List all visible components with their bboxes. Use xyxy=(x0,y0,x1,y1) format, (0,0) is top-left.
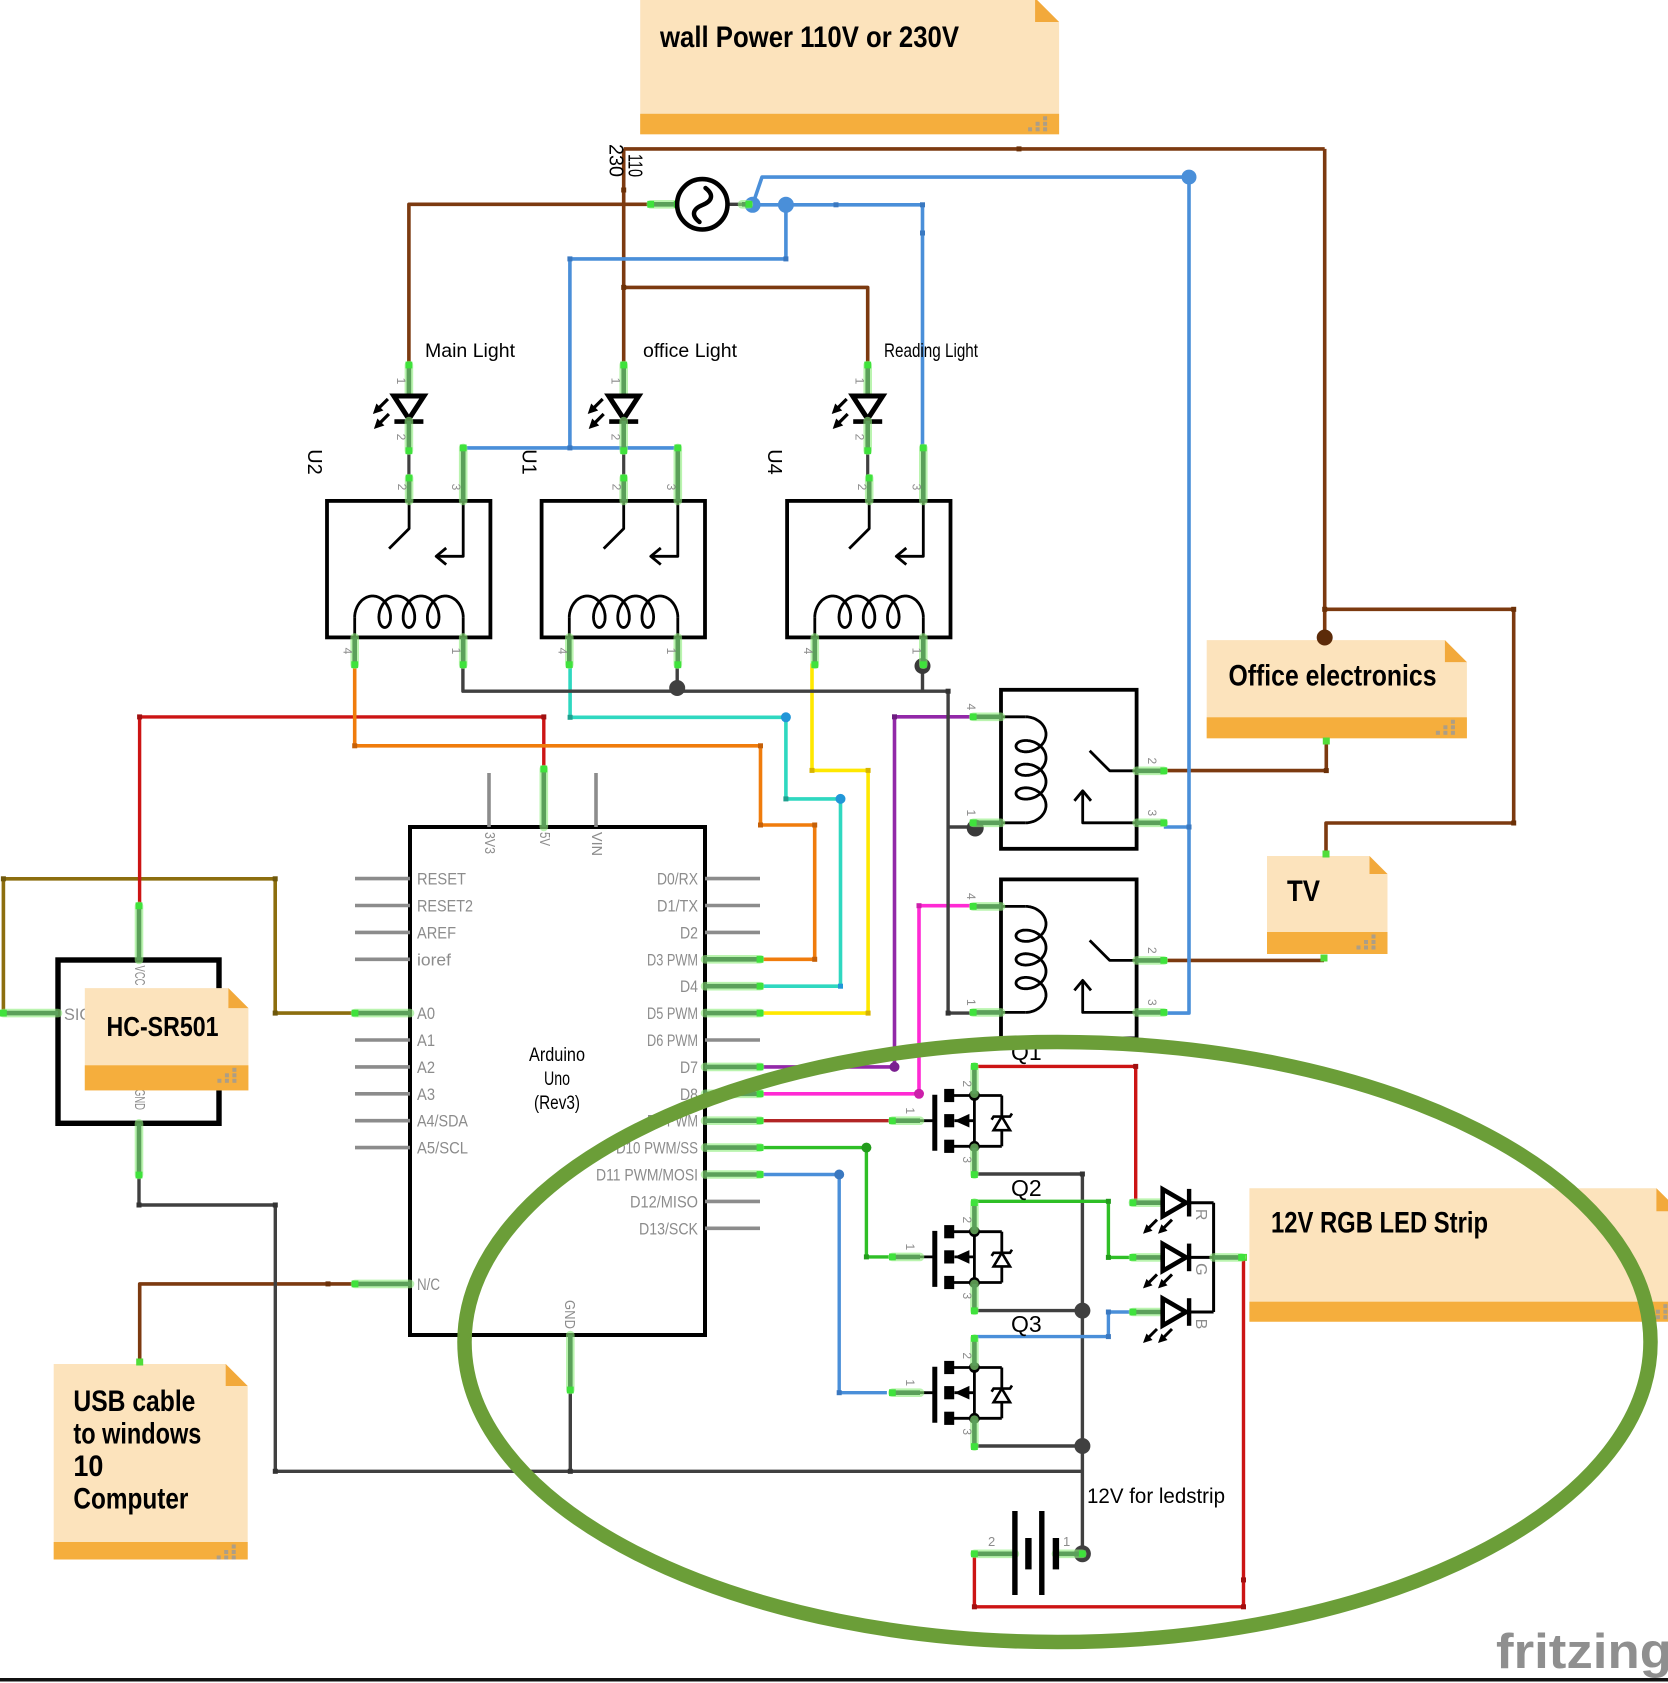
Arduino Uno U5 xyxy=(352,766,764,1394)
svg-text:B: B xyxy=(1192,1319,1209,1330)
wire brown to Office electronics note xyxy=(1323,149,1327,636)
svg-text:Uno: Uno xyxy=(544,1069,570,1090)
wire HC-SR501 GND down xyxy=(137,1175,1083,1474)
svg-text:1: 1 xyxy=(1063,1534,1070,1549)
svg-text:GND: GND xyxy=(561,1300,578,1329)
wire blue branch down to U2/U1 pin3 xyxy=(567,205,788,448)
svg-text:D0/RX: D0/RX xyxy=(657,870,698,889)
svg-text:4: 4 xyxy=(555,648,569,655)
wire Arduino N/C to USB note xyxy=(140,1281,355,1364)
wire relay U4 pin1 drop xyxy=(921,665,924,692)
svg-text:A1: A1 xyxy=(417,1031,435,1050)
annotation note: Office electronics xyxy=(1207,640,1467,738)
wire LED cathode to relay pin2 at x=623.7 xyxy=(622,451,625,478)
svg-text:ioref: ioref xyxy=(417,950,451,969)
wire relay U4 coil to D5 (yellow) xyxy=(760,664,871,1016)
MOSFET Q1 xyxy=(889,1039,1042,1178)
svg-text:GND: GND xyxy=(131,1089,148,1110)
svg-text:fritzing: fritzing xyxy=(1496,1625,1668,1679)
svg-text:D7: D7 xyxy=(680,1058,698,1077)
svg-text:(Rev3): (Rev3) xyxy=(534,1093,580,1114)
svg-text:2: 2 xyxy=(855,484,869,491)
svg-text:AREF: AREF xyxy=(417,923,456,942)
svg-text:3: 3 xyxy=(449,484,463,491)
label Reading Light xyxy=(884,340,978,362)
PIR sensor HC-SR501 xyxy=(0,902,219,1178)
svg-text:office Light: office Light xyxy=(643,340,738,362)
svg-text:2: 2 xyxy=(395,484,409,491)
svg-text:2: 2 xyxy=(853,434,867,441)
svg-text:2: 2 xyxy=(609,434,623,441)
svg-text:N/C: N/C xyxy=(417,1275,440,1294)
svg-text:D1/TX: D1/TX xyxy=(657,897,698,916)
svg-text:A4/SDA: A4/SDA xyxy=(417,1112,469,1131)
wire HC-SR501 SIG to Arduino A0 (dark yellow) xyxy=(1,876,355,1015)
wire Q2 drain to LED G (green) xyxy=(974,1199,1134,1260)
wire brown branch to TV note xyxy=(1322,607,1516,852)
LED office light xyxy=(588,362,639,454)
bottom border line xyxy=(0,1678,1668,1682)
svg-text:R: R xyxy=(1192,1209,1209,1221)
svg-text:2: 2 xyxy=(610,484,624,491)
svg-text:VCC: VCC xyxy=(131,966,148,986)
svg-text:4: 4 xyxy=(341,648,355,655)
wire relay K2 coil to D8 (magenta) xyxy=(760,903,974,1099)
node junction Office electronics pin1 xyxy=(1317,630,1333,646)
wire blue to relay K1 pin3 xyxy=(1164,825,1192,830)
svg-text:1: 1 xyxy=(964,999,978,1006)
node USB note pin xyxy=(136,1359,143,1366)
battery 12V xyxy=(971,1511,1086,1595)
svg-text:2: 2 xyxy=(988,1534,995,1549)
relay U2 xyxy=(303,445,490,669)
svg-text:Main Light: Main Light xyxy=(425,340,516,362)
lead LED G to strip note xyxy=(1214,1254,1245,1261)
wire LED cathode to relay pin2 at x=408.9 xyxy=(407,451,410,478)
svg-text:4: 4 xyxy=(801,648,815,655)
node junction battery pin1 xyxy=(1074,1545,1091,1562)
svg-text:1: 1 xyxy=(964,809,978,816)
wire relay K2 pin2 to TV pin2 xyxy=(1164,959,1324,963)
svg-text:RESET2: RESET2 xyxy=(417,897,473,916)
svg-text:1: 1 xyxy=(609,378,623,385)
svg-text:1: 1 xyxy=(394,378,408,385)
wire mains brown drop to office LED xyxy=(621,149,626,365)
label 230 xyxy=(605,144,627,177)
wire mains brown bus 230/110 xyxy=(624,146,1325,151)
svg-text:Arduino: Arduino xyxy=(529,1045,585,1066)
wire LED cathode to relay pin2 at x=867.7 xyxy=(866,451,869,478)
svg-text:Reading Light: Reading Light xyxy=(884,340,978,362)
svg-text:D2: D2 xyxy=(680,923,698,942)
node 12V RGB LED strip pin marker xyxy=(1240,1254,1247,1261)
svg-text:U4: U4 xyxy=(763,449,785,475)
svg-text:USB cable: USB cable xyxy=(73,1385,195,1418)
svg-text:Q3: Q3 xyxy=(1011,1311,1042,1337)
node junction U1 pin1 xyxy=(669,680,685,696)
LED G xyxy=(1130,1244,1214,1289)
svg-text:10: 10 xyxy=(73,1450,103,1483)
annotation note: 12V RGB LED Strip xyxy=(1249,1188,1668,1322)
svg-text:D13/SCK: D13/SCK xyxy=(639,1219,699,1238)
svg-text:to windows: to windows xyxy=(73,1418,201,1451)
wire relay K1 pin2 to Office electronics pin2 xyxy=(1164,741,1329,773)
svg-text:A5/SCL: A5/SCL xyxy=(417,1139,468,1158)
node junction Q2 source xyxy=(1074,1303,1090,1319)
node blue junction top right xyxy=(1182,170,1197,185)
svg-text:3: 3 xyxy=(1145,999,1159,1006)
svg-text:3: 3 xyxy=(1145,809,1159,816)
svg-text:A2: A2 xyxy=(417,1058,435,1077)
relay U1 xyxy=(518,445,705,669)
wire RGB cathode bus xyxy=(1212,1203,1215,1312)
node blue junction at AC terminal xyxy=(745,197,761,213)
svg-text:Computer: Computer xyxy=(73,1483,188,1516)
svg-text:230: 230 xyxy=(605,144,627,177)
svg-text:U1: U1 xyxy=(518,449,540,475)
label Main Light xyxy=(425,340,516,362)
svg-text:4: 4 xyxy=(964,703,978,710)
svg-text:2: 2 xyxy=(960,1352,974,1359)
svg-text:Q2: Q2 xyxy=(1011,1175,1042,1201)
AC source V1 xyxy=(647,179,752,229)
wire blue bus down right side xyxy=(1164,177,1189,1013)
LED R xyxy=(1130,1189,1214,1234)
svg-text:D4: D4 xyxy=(680,977,698,996)
wire D10 to Q2 gate (green) xyxy=(760,1143,892,1260)
svg-text:D3 PWM: D3 PWM xyxy=(647,950,698,969)
svg-text:4: 4 xyxy=(964,893,978,900)
svg-text:A3: A3 xyxy=(417,1085,435,1104)
wire D11 to Q3 gate (blue) xyxy=(760,1170,887,1396)
svg-text:D11 PWM/MOSI: D11 PWM/MOSI xyxy=(596,1166,698,1185)
wire battery plus loop (red) xyxy=(972,1257,1246,1609)
node Office electronics pin2 marker xyxy=(1323,738,1330,745)
svg-text:2: 2 xyxy=(960,1217,974,1224)
svg-text:1: 1 xyxy=(664,648,678,655)
node TV pin2 marker xyxy=(1321,955,1328,962)
LED B xyxy=(1130,1298,1214,1343)
svg-text:1: 1 xyxy=(903,1244,917,1251)
wire relay pins1 common bus (dark grey) xyxy=(463,665,948,692)
svg-text:D6 PWM: D6 PWM xyxy=(647,1031,698,1050)
fritzing watermark xyxy=(1496,1625,1668,1679)
svg-text:12V for ledstrip: 12V for ledstrip xyxy=(1087,1485,1225,1508)
svg-text:5V: 5V xyxy=(536,832,553,846)
svg-text:VIN: VIN xyxy=(588,832,605,856)
svg-text:TV: TV xyxy=(1287,875,1320,908)
svg-text:3V3: 3V3 xyxy=(481,832,498,854)
wire relay U2 coil to D3 (orange) xyxy=(352,664,817,962)
svg-text:2: 2 xyxy=(394,434,408,441)
wire AC right terminal blue riser xyxy=(753,177,1189,205)
svg-text:D5 PWM: D5 PWM xyxy=(647,1004,698,1023)
svg-text:HC-SR501: HC-SR501 xyxy=(107,1011,219,1042)
svg-text:3: 3 xyxy=(960,1293,974,1300)
wire mains brown branch to reading LED xyxy=(621,285,868,365)
svg-text:wall Power 110V or 230V: wall Power 110V or 230V xyxy=(659,21,959,54)
node TV pin1 marker xyxy=(1323,851,1330,858)
wire Arduino GND drop xyxy=(568,1390,573,1474)
node junction U4 pin1 xyxy=(915,658,931,674)
wire relay U1 pin1 drop xyxy=(676,665,679,692)
svg-text:3: 3 xyxy=(909,484,923,491)
svg-text:110: 110 xyxy=(624,154,646,177)
MOSFET Q3 xyxy=(889,1311,1042,1450)
wire Q3 drain to LED B (blue) xyxy=(974,1310,1133,1340)
svg-text:1: 1 xyxy=(853,378,867,385)
annotation note: TV xyxy=(1267,856,1388,954)
wire AC terminal to relay U4 pin3 xyxy=(753,202,925,448)
wire grey bus down to relay K1 pin1 xyxy=(946,689,974,1016)
wire grey branch to relay K1 pin1 xyxy=(948,825,973,828)
svg-text:1: 1 xyxy=(903,1379,917,1386)
annotation ellipse 12V RGB region xyxy=(465,1042,1651,1642)
svg-text:12V RGB LED Strip: 12V RGB LED Strip xyxy=(1271,1206,1488,1239)
node blue junction branch xyxy=(778,197,794,213)
svg-text:2: 2 xyxy=(960,1080,974,1087)
svg-text:2: 2 xyxy=(1145,947,1159,954)
wire Q3 source to bus xyxy=(974,1444,1082,1447)
wire Q2 source to bus xyxy=(974,1309,1082,1312)
svg-text:1: 1 xyxy=(909,648,923,655)
wire relay U1 coil to D4 (cyan) xyxy=(568,664,846,989)
svg-text:D12/MISO: D12/MISO xyxy=(630,1192,698,1211)
wire D9 to Q1 gate (dark red) xyxy=(760,1119,892,1122)
relay K1 (office electronics) xyxy=(964,690,1167,849)
svg-text:RESET: RESET xyxy=(417,870,466,889)
LED main light xyxy=(373,362,424,454)
wire blue to relay U2 pin3 xyxy=(463,448,570,449)
label 12V for ledstrip xyxy=(1087,1485,1225,1508)
wire relay K1 coil to D7 (purple) xyxy=(760,714,973,1072)
node junction Q3 source xyxy=(1074,1438,1090,1454)
relay K2 (TV) xyxy=(964,879,1167,1038)
svg-text:G: G xyxy=(1192,1263,1209,1275)
svg-text:3: 3 xyxy=(960,1428,974,1435)
annotation note: USB cable to windows 10 Computer xyxy=(54,1364,248,1560)
MOSFET Q2 xyxy=(889,1175,1042,1314)
svg-text:3: 3 xyxy=(664,484,678,491)
svg-text:U2: U2 xyxy=(303,449,325,475)
annotation note: wall Power 110V or 230V xyxy=(640,0,1059,134)
relay U4 xyxy=(763,445,950,669)
svg-text:Office electronics: Office electronics xyxy=(1229,659,1437,692)
wire blue to relay U1 pin3 xyxy=(567,445,677,450)
svg-text:2: 2 xyxy=(1145,757,1159,764)
wire AC left terminal to main LED xyxy=(409,202,653,365)
svg-text:1: 1 xyxy=(449,648,463,655)
annotation note: HC-SR501 xyxy=(85,988,249,1090)
svg-text:A0: A0 xyxy=(417,1004,435,1023)
node junction relay K1 pin1 xyxy=(967,820,984,837)
LED reading light xyxy=(832,362,883,454)
svg-text:3: 3 xyxy=(960,1156,974,1163)
wire MOSFET source bus xyxy=(974,1172,1085,1554)
svg-text:1: 1 xyxy=(903,1107,917,1114)
wire Q1 drain to LED R (red) xyxy=(976,1064,1138,1203)
label office Light xyxy=(643,340,738,362)
label 110 xyxy=(624,154,646,177)
wire Arduino 5V to HC-SR501 VCC (red) xyxy=(137,714,546,905)
